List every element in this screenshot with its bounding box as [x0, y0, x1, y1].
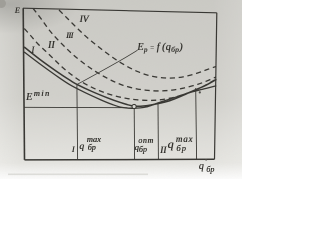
dashed curve II	[24, 29, 216, 101]
dashed curve IV	[59, 10, 216, 78]
solid curve B (curve I lower / rising branch)	[24, 52, 216, 108]
Ep = f(q bp) label	[137, 42, 182, 54]
E^min level line	[24, 106, 131, 108]
x axis label q bp	[199, 161, 204, 172]
faint streak near page bottom	[8, 174, 148, 176]
axis frame: top border	[23, 8, 217, 13]
bottom label: q max vr	[79, 142, 84, 152]
curve label II	[48, 40, 55, 51]
curve label IV	[80, 15, 89, 25]
bottom label: q opt bp	[135, 142, 139, 152]
axis frame: right border	[215, 13, 217, 160]
dashed curve III	[33, 8, 216, 91]
curve label III	[66, 30, 73, 40]
dark smudge top-left corner	[0, 0, 6, 8]
bottom label: I	[72, 145, 75, 154]
leader line from Ep label to curve I	[78, 50, 138, 84]
solid curve A (curve I upper, through circle minimum)	[24, 47, 216, 106]
axis frame: left (E) axis	[23, 8, 24, 160]
bottom label: II q max bp	[160, 146, 166, 156]
open circle at optimum point	[132, 104, 136, 108]
small dot marker	[199, 91, 201, 93]
E axis label	[15, 6, 20, 15]
E min label	[26, 92, 32, 103]
vertical line at q II max	[195, 88, 198, 159]
paper noise	[0, 0, 1, 1]
vertical line at 158	[157, 103, 159, 160]
axis frame: bottom (q) axis	[25, 158, 215, 161]
curve label I	[31, 45, 34, 55]
tiny tick below bottom axis	[205, 159, 207, 161]
vertical line at q opt	[133, 108, 135, 159]
vertical line at q I max	[76, 85, 79, 160]
